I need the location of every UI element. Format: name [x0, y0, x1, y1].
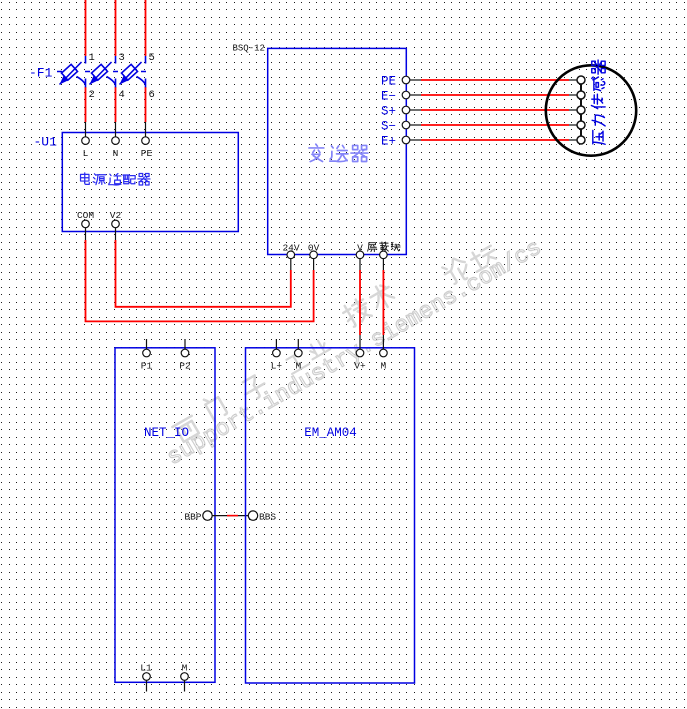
- wire breaker pole3 to U1:PE: [145, 87, 147, 122]
- NET_IO pin P2: [181, 349, 189, 357]
- svg-text:-F1: -F1: [29, 66, 53, 81]
- wire V to V+: [359, 270, 361, 335]
- U1 pin PE: [142, 137, 150, 145]
- U1 pin N stub: [115, 122, 117, 137]
- EM pin V+: [356, 349, 364, 357]
- sensor terminal 3: [577, 106, 585, 114]
- NET_IO pin P2 stub: [184, 339, 186, 349]
- svg-text:-U1: -U1: [34, 135, 58, 150]
- svg-text:6: 6: [149, 89, 155, 101]
- svg-text:M: M: [182, 663, 188, 674]
- wire net phase 1 (top): [85, 0, 87, 56]
- svg-text:BBP: BBP: [184, 512, 201, 523]
- svg-text:M: M: [381, 361, 387, 372]
- svg-text:2: 2: [89, 89, 95, 101]
- EM pin M2: [380, 349, 388, 357]
- watermark: [172, 243, 499, 444]
- svg-text:V+: V+: [354, 361, 366, 372]
- breaker pole 3: [120, 56, 146, 87]
- EM pin BBS: [248, 511, 257, 520]
- sensor terminal 5: [577, 136, 585, 144]
- wire S- to sensor: [421, 124, 569, 126]
- EM_AM04 box: [246, 348, 415, 683]
- svg-text:M: M: [295, 361, 301, 372]
- wire net phase 3 (top): [145, 0, 147, 56]
- wire S+ to sensor: [421, 109, 569, 111]
- svg-text:PE: PE: [381, 75, 396, 89]
- sensor terminal 2: [577, 91, 585, 99]
- wire E- to sensor: [421, 94, 569, 96]
- EM pin M1: [295, 349, 303, 357]
- svg-text:BSQ-12: BSQ-12: [233, 44, 265, 54]
- EM pin M1 stub: [297, 339, 299, 349]
- EM pin L+: [273, 349, 281, 357]
- breaker pole 2: [90, 56, 116, 87]
- wire net phase 2 (top): [115, 0, 117, 56]
- EM pin L+ stub: [275, 339, 277, 349]
- svg-text:L1: L1: [140, 663, 152, 674]
- U1 pin PE stub: [145, 122, 147, 137]
- transmitter text 变送器: [309, 144, 368, 161]
- svg-text:E−: E−: [381, 90, 396, 104]
- sensor stub E-: [569, 94, 577, 96]
- svg-text:COM: COM: [77, 210, 94, 221]
- NET_IO pin P1: [143, 349, 151, 357]
- transmitter BSQ-12 box: [268, 48, 407, 254]
- sensor terminal 1: [577, 76, 585, 84]
- sensor text 压力传感器: [591, 60, 605, 144]
- NET_IO pin P1 stub: [146, 339, 148, 349]
- sensor stub PE: [569, 79, 577, 81]
- U1 pin L: [82, 137, 90, 145]
- wire breaker pole1 to U1:L: [85, 87, 87, 122]
- wire BBP to BBS: [212, 515, 248, 517]
- svg-text:L: L: [83, 148, 89, 159]
- linkage dashed line: [57, 71, 150, 73]
- svg-text:L+: L+: [271, 361, 283, 372]
- U1 pin V2: [112, 220, 120, 228]
- sensor stub S+: [569, 109, 577, 111]
- svg-text:P1: P1: [141, 361, 153, 372]
- U1 text 电源适配器: [81, 173, 150, 185]
- breaker pole 1: [60, 56, 86, 87]
- wire 屏蔽线 to M: [382, 270, 384, 335]
- power adapter U1 box: [62, 133, 238, 232]
- svg-text:NET_IO: NET_IO: [144, 426, 189, 440]
- svg-text:BBS: BBS: [259, 512, 276, 523]
- U1 pin COM: [82, 220, 90, 228]
- svg-text:PE: PE: [141, 148, 153, 159]
- svg-text:P2: P2: [179, 361, 191, 372]
- sensor circle: [546, 65, 636, 155]
- transmitter pin 屏蔽线: [368, 242, 400, 252]
- sensor stub S-: [569, 124, 577, 126]
- sensor terminal strip: [580, 80, 582, 140]
- wire E+ to sensor: [421, 139, 569, 141]
- EM pin V+ stub: [359, 335, 361, 349]
- svg-text:S+: S+: [381, 105, 396, 119]
- svg-text:5: 5: [149, 52, 155, 64]
- U1 pin V2 stub: [115, 228, 117, 240]
- svg-text:3: 3: [119, 52, 125, 64]
- svg-text:1: 1: [89, 52, 95, 64]
- wire V2 to 24V: [116, 240, 291, 307]
- svg-text:E+: E+: [381, 135, 396, 149]
- wire COM to 0V: [86, 240, 314, 321]
- NET_IO box: [115, 348, 215, 683]
- breaker -F1: [57, 56, 150, 87]
- sensor terminal 4: [577, 121, 585, 129]
- U1 pin COM stub: [85, 228, 87, 240]
- sensor stub E+: [569, 139, 577, 141]
- svg-text:4: 4: [119, 89, 125, 101]
- svg-text:EM_AM04: EM_AM04: [304, 426, 357, 440]
- svg-text:S−: S−: [381, 120, 396, 134]
- U1 pin L stub: [85, 122, 87, 137]
- wire breaker pole2 to U1:N: [115, 87, 117, 122]
- U1 pin N: [112, 137, 120, 145]
- EM pin M2 stub: [382, 335, 384, 349]
- svg-text:V2: V2: [110, 210, 122, 221]
- wire PE to sensor: [421, 79, 569, 81]
- svg-text:N: N: [113, 148, 119, 159]
